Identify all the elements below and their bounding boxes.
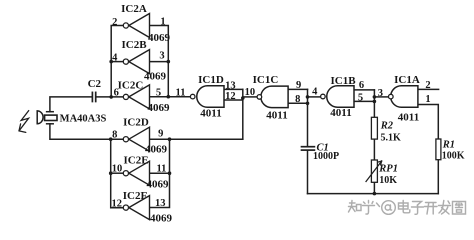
resistor R1 100K [436,139,441,160]
svg-text:IC2B: IC2B [121,39,147,51]
svg-text:4: 4 [112,53,118,64]
svg-text:2: 2 [112,17,117,28]
wire: IC1C output to IC1D input node [243,96,257,98]
svg-text:R1: R1 [442,140,455,151]
wire: IC1B output to IC1C input node [308,96,321,98]
svg-text:4069: 4069 [147,179,170,191]
node: junction pin3 on right bus [167,60,171,64]
node: junction IC1B pin5 with R2 branch [373,100,377,104]
capacitor C2 [92,92,95,101]
nand gate IC1D body [190,86,224,108]
inverter IC2A [123,14,149,38]
emission arrow (lightning) [19,111,29,133]
svg-text:IC2C: IC2C [118,79,144,91]
nand gate IC1B body [321,86,354,108]
wire: IC1C input pin 9 [288,88,307,90]
node: junction bottom wire with bottom-left bus [109,137,113,141]
svg-text:IC2A: IC2A [121,3,147,15]
wire: transducer bottom lead and wire to IC2D [50,124,123,139]
watermark tick [377,203,380,207]
svg-text:4069: 4069 [148,102,171,114]
svg-text:IC1D: IC1D [198,74,224,86]
wire: IC1B input pin 6 [354,89,374,91]
svg-text:4069: 4069 [144,71,167,83]
svg-text:12: 12 [112,198,123,209]
svg-text:13: 13 [155,198,166,209]
svg-text:MA40A3S: MA40A3S [60,114,107,125]
nand gate IC1C body [257,86,288,108]
wire: top-left output bus (pins 2,4,6 of IC2A/B/C) [111,26,123,97]
watermark 知乎@电子开发圈 [349,201,466,215]
watermark glyph 圈 [453,202,466,215]
svg-text:10K: 10K [379,175,397,186]
svg-text:8: 8 [295,94,300,105]
node: junction pin10 on bottom-left bus [109,171,113,175]
wire: IC1B input tie vertical down to R2 [373,90,375,117]
wire: C2 to IC2C bubble through bus junction [97,96,123,98]
svg-text:6: 6 [114,88,119,99]
potentiometer RP1 10K [366,160,382,182]
wire: transducer top lead and wire to C2 [50,97,92,112]
svg-text:5.1K: 5.1K [381,132,402,143]
node: junction pin5 wire with top-right bus [167,95,171,99]
wire: bottom rail [308,193,439,195]
svg-text:IC2D: IC2D [123,117,149,129]
wire: pin 4 stub to IC2B bubble [111,61,123,63]
watermark glyph @ [382,201,396,215]
svg-text:2: 2 [425,80,430,91]
svg-text:4011: 4011 [398,112,419,124]
wire: RP1 bottom lead to rail [373,182,375,193]
wire: IC1B input pin 5 [354,100,374,102]
watermark glyph 电 [399,201,410,213]
node: junction IC1D inputs / IC1C output / feed to IC2D-F [241,96,245,100]
wire: bottom-left output bus (pins 8,10,12) [111,139,123,208]
node: junction pin4 on left bus [109,60,113,64]
svg-text:R2: R2 [380,121,394,132]
nand gate IC1A body [389,86,418,108]
svg-text:4069: 4069 [148,32,171,44]
inverter IC2B [123,50,149,74]
svg-text:4011: 4011 [330,107,351,119]
svg-text:11: 11 [176,87,186,98]
svg-text:IC1C: IC1C [253,74,279,86]
node: junction of C2 wire with top-left bus [109,95,113,99]
watermark glyph 乎 [363,201,375,215]
inverter IC2C [123,85,149,109]
svg-text:IC1B: IC1B [330,75,356,87]
svg-text:10: 10 [245,87,256,98]
svg-text:IC1A: IC1A [394,74,420,86]
wire: pin 10 stub [111,172,123,174]
svg-text:100K: 100K [442,151,465,162]
inverter IC2E [123,161,149,185]
node: junction IC1C inputs with IC1B output [306,95,310,99]
wire: IC1A output to IC1B input node [374,96,388,98]
node: junction RP1 on bottom rail [373,192,377,196]
svg-text:C2: C2 [88,78,102,90]
svg-text:1: 1 [160,17,165,28]
wire: IC1D input tie vertical down to pin9 run [242,89,244,139]
wire: top-right input bus (pins 1,3,5) [150,26,169,97]
svg-text:IC2F: IC2F [123,190,148,202]
wire: pin 9 run from IC2D to IC1D input branch [150,138,243,140]
svg-text:6: 6 [359,80,364,91]
wire: bottom-right input bus (pins 9,11,13) [150,139,170,207]
wire: R1 bottom lead to rail [437,160,439,194]
node: junction pin11 on bottom-right bus [168,171,172,175]
svg-text:12: 12 [225,91,236,102]
svg-text:4069: 4069 [145,144,168,156]
svg-text:4069: 4069 [150,213,173,225]
svg-text:1000P: 1000P [313,151,339,162]
svg-text:11: 11 [156,163,166,174]
resistor R2 5.1K [371,117,377,139]
wire: pin 5 to pin 11 (IC1D output) [150,96,191,98]
watermark glyph 知 [349,201,362,213]
wire: IC1C input tie vertical down to C1 [307,89,309,146]
wire: IC1A input pin 2 (open stub) [418,88,439,90]
svg-text:4011: 4011 [266,109,287,121]
svg-text:9: 9 [296,80,301,91]
watermark glyph 开 [425,203,438,215]
inverter IC2F [123,196,149,220]
transducer MA40A3S body [37,111,57,124]
svg-text:RP1: RP1 [378,164,398,175]
svg-text:4011: 4011 [200,108,221,120]
node: junction IC1C pin8 with C1 branch [306,102,310,106]
svg-text:13: 13 [225,80,236,91]
watermark glyph 子 [412,202,424,215]
capacitor C1 [302,147,315,150]
svg-text:1: 1 [425,94,430,105]
wire: IC1A input pin 1 down to R1 [418,105,438,140]
svg-text:3: 3 [159,51,164,62]
watermark glyph 发 [439,201,451,215]
wire: IC1C input pin 8 [288,102,307,104]
inverter IC2D [123,127,149,151]
wire: IC1D input pin 13 [224,88,243,90]
wire: R2 to RP1 link [373,139,375,160]
svg-text:IC2E: IC2E [123,154,148,166]
svg-text:4: 4 [312,86,318,97]
node: junction IC1B inputs with IC1A output [373,95,377,99]
svg-text:10: 10 [112,164,123,175]
svg-text:8: 8 [112,130,117,141]
wire: IC1D input pin 12 [224,99,243,101]
wire: pin 11 stub of IC2E [150,172,170,174]
wire: pin 3 stub [150,61,169,63]
svg-text:5: 5 [358,92,363,103]
node: junction pin9 with bottom-right bus [168,137,172,141]
svg-text:3: 3 [378,88,383,99]
wire: C1 bottom lead to rail [307,150,309,193]
svg-text:5: 5 [156,88,161,99]
svg-text:9: 9 [158,129,163,140]
